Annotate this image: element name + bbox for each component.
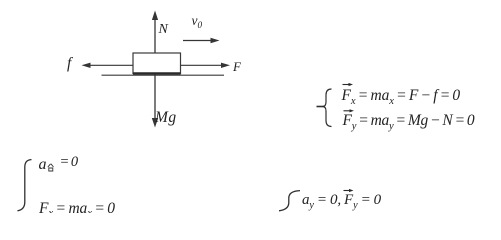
block M (rectangle body): [133, 53, 181, 74]
dash before system brace: [317, 106, 326, 108]
brace bottom-right (cut off): [279, 191, 300, 211]
brace of equation system (right): [323, 89, 332, 127]
arrow N (normal force, upward): [152, 11, 158, 54]
equals-zero of a_net: [60, 155, 79, 170]
equation Fx = max = 0 (bottom left, cut off): [39, 201, 115, 217]
label v0: [192, 14, 203, 28]
arrow F (applied force, rightward): [181, 63, 231, 68]
equation Fy = may = Mg - N = 0: [343, 113, 475, 129]
label Mg: [155, 110, 177, 126]
equation Fx = max = F - f = 0: [342, 88, 461, 104]
equation ay = 0, Fy = 0 (bottom right): [302, 193, 381, 208]
arrow Mg (gravity, downward): [152, 75, 158, 128]
label F: [233, 60, 241, 73]
brace bottom-left (cut off): [18, 160, 32, 211]
block bottom edge (thick contact line): [133, 72, 181, 74]
vector arrow over Fx: [343, 83, 354, 86]
vector arrow over Fy: [344, 109, 355, 112]
label N: [159, 23, 168, 37]
label f: [67, 56, 71, 72]
vector bar over Fy (bottom right): [344, 189, 354, 192]
ground surface line: [102, 74, 225, 76]
arrow f (friction, leftward): [82, 63, 134, 68]
arrow v0 (velocity, rightward): [183, 38, 220, 44]
subscript glyph (net) for a_net: [48, 164, 54, 171]
equation a_net = 0 (bottom left): [39, 157, 47, 173]
